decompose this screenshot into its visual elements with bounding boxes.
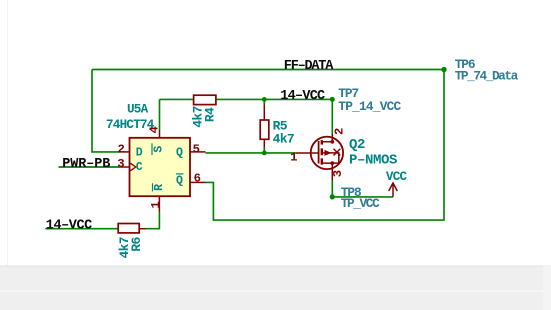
bottom status bar [0,266,551,310]
svg-text:VCC: VCC [386,170,408,184]
svg-text:S: S [153,146,166,153]
svg-text:R4: R4 [202,107,217,122]
svg-text:C: C [136,161,143,174]
wire Qbar to bottom to TP6 vertical [206,70,445,221]
wire R5 top stub [263,99,265,104]
wire 14-VCC to R6 [45,228,118,230]
source connection [323,162,339,164]
drain connection [323,134,332,142]
svg-text:P–NMOS: P–NMOS [349,152,397,168]
wire pin4 vertical [159,99,161,130]
svg-text:D: D [136,146,143,159]
svg-text:2: 2 [333,128,347,135]
transistor Q2 P-NMOS [290,128,397,181]
svg-text:Q: Q [176,146,183,159]
channel bar segments [321,140,323,145]
svg-text:FF–DATA: FF–DATA [284,59,334,74]
R6 right pin stub [139,228,145,230]
svg-text:3: 3 [331,170,345,177]
svg-text:R: R [153,184,166,191]
svg-text:1: 1 [290,151,297,165]
wire R4 right to junction [216,98,264,100]
svg-text:1: 1 [149,201,163,208]
wire left vertical to D [92,70,121,152]
wire TP8 vertical stub [331,181,333,197]
junction dot R4/R5 node [262,97,267,102]
svg-text:3: 3 [117,157,124,171]
pin 6 stub [190,181,206,183]
svg-text:4: 4 [147,125,161,133]
junction dot Q/R5/gate node [262,151,267,156]
wire R6 right corner up to pin1 [146,212,160,229]
pin 4 stub [159,130,161,138]
svg-text:4k7: 4k7 [273,132,294,147]
pin 3 stub [121,166,130,168]
svg-text:2: 2 [118,142,125,156]
wire PWR-PB to pin3 [59,166,122,168]
svg-text:U5A: U5A [127,102,149,116]
svg-text:PWR–PB: PWR–PB [62,157,110,172]
wire 14-VCC to TP7 [264,98,332,100]
svg-text:TP_14_VCC: TP_14_VCC [338,99,401,114]
gate bar [318,141,320,164]
junction dot TP7 node [330,97,335,102]
svg-text:TP_VCC: TP_VCC [341,196,380,211]
sheet edge faint line [7,0,8,266]
pin 1 stub [158,196,160,211]
wire R5 bottom stub [263,148,265,153]
resistor R5 [260,105,294,148]
svg-text:TP_74_Data: TP_74_Data [455,69,519,84]
X mark [334,149,341,156]
svg-text:Q: Q [176,174,183,187]
svg-text:R6: R6 [129,237,144,252]
gate lead [296,152,319,154]
resistor R4 [191,95,218,128]
svg-text:Q2: Q2 [349,137,365,153]
junction dot TP8 node [330,194,335,199]
wire FF-DATA top horizontal [92,69,444,71]
wire to R4 left [160,98,194,100]
wire Q output to gate [206,152,296,154]
svg-text:14–VCC: 14–VCC [46,218,92,233]
junction dot TP6 node [441,67,446,72]
svg-text:14–VCC: 14–VCC [280,89,325,104]
clock triangle [130,163,136,172]
svg-text:5: 5 [193,142,200,156]
flip-flop U5A 74HCT74 [106,102,206,228]
bulk line with arrow [323,153,339,163]
pin 2 stub [121,151,130,153]
wire TP8 to VCC [332,196,393,198]
svg-text:6: 6 [194,172,201,186]
resistor R6 [117,224,144,259]
power symbol VCC [389,183,398,197]
pin 5 stub [190,151,206,153]
wire drain vertical [331,99,333,133]
